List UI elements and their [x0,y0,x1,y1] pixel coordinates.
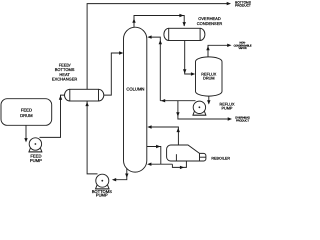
svg-text:BOTTOMSPRODUCT: BOTTOMSPRODUCT [235,0,251,7]
wire overhead product [178,101,230,119]
reflux pump [193,101,206,115]
arrow drum into reflux pump [207,100,210,104]
wire condenser to reflux drum [185,41,194,75]
wire column overhead vapor [134,16,184,28]
wire column to reboiler liquid [147,147,161,165]
wire reflux line to column top [150,37,161,101]
svg-text:REFLUXPUMP: REFLUXPUMP [220,102,235,110]
arrow vapor return up [177,128,180,132]
arrow product branch down [176,112,179,116]
arrow bottoms product [227,2,231,5]
overhead condenser [164,28,205,40]
reboiler weir [175,154,177,161]
column [124,27,147,172]
wire bottoms pump discharge riser [87,101,97,174]
feed pump [29,138,42,152]
wire reflux drum to pump [208,96,210,103]
arrow reflux up [159,40,162,44]
arrow bottoms into exchanger [85,102,88,106]
arrow overhead product right [228,117,232,120]
arrow reflux pump discharge left [161,99,165,102]
svg-text:REBOILER: REBOILER [211,156,230,160]
arrow feed drum to pump [24,138,27,142]
arrow feed into exchanger [59,95,62,99]
reboiler right head [200,153,206,161]
wire reflux pump discharge [160,100,195,102]
wire feed drum outlet [25,125,27,139]
wire exchanger to column feed [104,53,122,95]
svg-text:FEED/BOTTOMSHEATEXCHANGER: FEED/BOTTOMSHEATEXCHANGER [52,62,77,81]
feed drum [1,99,52,126]
wire feed pump discharge [40,95,65,137]
svg-text:COLUMN: COLUMN [126,86,144,91]
arrow column liquid to reboiler [156,145,160,148]
svg-text:FEEDDRUM: FEEDDRUM [20,107,33,117]
arrow overhead into condenser corner [179,14,183,17]
arrow condensate into drum [191,72,195,75]
wire reflux drum vent [208,45,230,57]
wire column bottoms to pump [114,168,127,179]
bottoms pump [96,174,110,189]
arrow reboiler feed right [180,166,184,169]
svg-text:FEEDPUMP: FEEDPUMP [30,154,42,163]
wire reboiler vapor return [150,127,179,145]
svg-text:REFLUXDRUM: REFLUXDRUM [201,73,216,81]
svg-text:OVERHEADPRODUCT: OVERHEADPRODUCT [235,116,250,123]
svg-text:OVERHEADCONDENSER: OVERHEADCONDENSER [197,16,223,26]
arrow vapor return into column [147,125,151,128]
arrow overhead down into condenser [183,22,186,26]
heat exchanger E1 shell [65,89,104,101]
arrow condensate down at drum [183,69,186,73]
arrow column bottoms down [125,174,128,178]
arrow vent up [206,46,209,50]
wire reboiler bottoms [150,163,173,165]
svg-text:BOTTOMSPUMP: BOTTOMSPUMP [92,189,112,198]
arrow bottoms into pump [112,178,116,181]
arrow overhead vapor up [132,18,135,22]
wire reboiler feed lower run [172,161,186,167]
reboiler kettle [167,145,200,161]
arrow reboiler bottoms left [147,163,151,166]
arrow vent right [227,44,231,47]
arrow feed into column [119,51,123,54]
arrow reflux into column [147,35,151,38]
reflux drum [196,57,223,96]
svg-text:NON-CONDENSABLEVAPOR: NON-CONDENSABLEVAPOR [234,42,252,50]
wire bottoms product riser and top line [87,4,229,90]
